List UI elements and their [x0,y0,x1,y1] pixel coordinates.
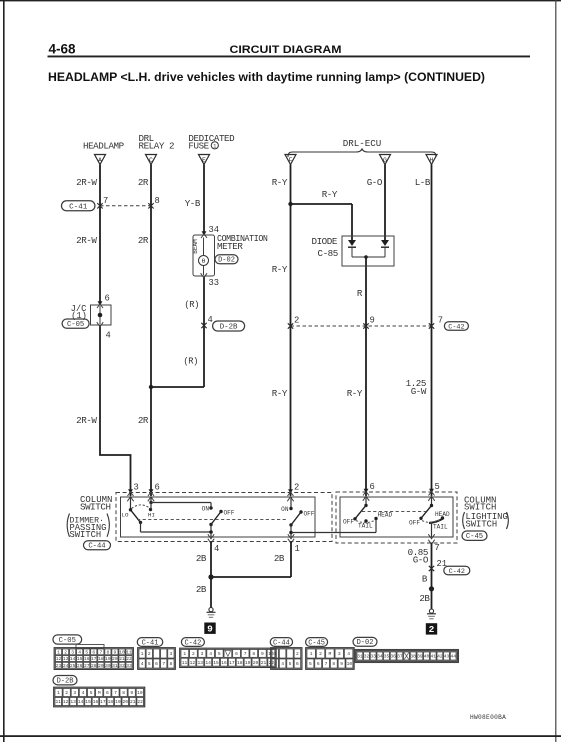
svg-text:SWITCH: SWITCH [466,520,498,530]
svg-text:5: 5 [90,690,93,696]
svg-text:32: 32 [364,654,370,660]
svg-text:28: 28 [91,663,97,669]
svg-text:36: 36 [390,654,396,660]
svg-text:2: 2 [148,651,151,657]
svg-text:7: 7 [114,690,117,696]
svg-text:1: 1 [310,651,313,657]
svg-text:OFF: OFF [409,520,420,527]
svg-text:1: 1 [274,651,277,657]
svg-text:20: 20 [123,699,129,705]
svg-text:14: 14 [70,656,76,662]
svg-text:2: 2 [64,650,67,656]
svg-text:2R: 2R [138,177,149,188]
svg-text:9: 9 [370,316,375,326]
svg-text:SWITCH: SWITCH [80,502,111,513]
svg-text:Y-B: Y-B [185,198,201,209]
svg-text:ON: ON [281,506,289,513]
svg-text:2R-W: 2R-W [76,177,97,188]
svg-text:42: 42 [437,654,443,660]
svg-text:9: 9 [114,650,117,656]
svg-text:10: 10 [347,661,353,667]
svg-text:33: 33 [209,278,220,288]
svg-text:8: 8 [252,651,255,657]
svg-text:OFF: OFF [343,519,354,526]
svg-text:D-2B: D-2B [220,324,238,332]
svg-text:4: 4 [209,651,212,657]
svg-text:3: 3 [338,651,341,657]
svg-text:2R: 2R [138,415,149,426]
svg-text:22: 22 [137,699,143,705]
svg-text:10: 10 [137,690,143,696]
svg-text:8: 8 [106,650,109,656]
svg-text:4-68: 4-68 [49,42,77,57]
svg-text:2: 2 [294,483,299,493]
svg-text:C-44: C-44 [88,543,105,551]
svg-text:4: 4 [82,690,85,696]
svg-text:C-45: C-45 [308,639,325,647]
svg-text:16: 16 [221,660,227,666]
svg-text:7: 7 [244,651,247,657]
svg-text:33: 33 [126,663,132,669]
svg-text:14: 14 [78,699,84,705]
svg-text:11: 11 [182,660,188,666]
svg-text:2: 2 [65,690,68,696]
svg-text:13: 13 [63,656,69,662]
svg-text:H: H [430,157,434,164]
svg-text:3: 3 [73,690,76,696]
svg-text:6: 6 [317,661,320,667]
svg-text:4: 4 [78,650,81,656]
svg-text:2B: 2B [196,584,207,595]
svg-text:2R: 2R [138,235,149,246]
svg-text:5: 5 [85,650,88,656]
svg-text:17: 17 [100,699,106,705]
svg-text:22: 22 [126,656,132,662]
svg-text:19: 19 [115,699,121,705]
svg-text:R-Y: R-Y [347,388,363,399]
svg-text:A: A [98,157,102,164]
svg-text:HW08E00BA: HW08E00BA [470,714,506,721]
svg-text:9: 9 [261,651,264,657]
svg-text:4: 4 [347,651,350,657]
svg-text:ON: ON [202,506,210,513]
svg-text:SWITCH: SWITCH [70,530,102,540]
svg-text:12: 12 [63,699,69,705]
svg-text:E: E [202,157,206,164]
svg-text:13: 13 [70,699,76,705]
svg-text:7: 7 [325,661,328,667]
svg-text:30: 30 [105,663,111,669]
svg-text:3: 3 [274,661,277,667]
svg-text:6: 6 [370,482,375,492]
svg-text:2B: 2B [419,593,430,604]
svg-text:M: M [329,651,332,657]
svg-text:1: 1 [183,651,186,657]
svg-text:C-41: C-41 [142,639,159,647]
svg-text:BEAM: BEAM [192,239,199,254]
svg-text:32: 32 [119,663,125,669]
svg-text:G-O: G-O [413,555,429,566]
svg-text:G-O: G-O [367,177,383,188]
svg-text:7: 7 [103,196,108,206]
svg-text:24: 24 [63,663,69,669]
svg-text:M: M [98,690,101,696]
svg-text:6: 6 [105,294,110,304]
svg-text:15: 15 [213,660,219,666]
svg-text:C-05: C-05 [59,637,76,645]
svg-text:41: 41 [430,654,436,660]
svg-text:12: 12 [56,656,62,662]
svg-text:DRL-ECU: DRL-ECU [343,138,382,149]
svg-text:R-Y: R-Y [322,189,338,200]
svg-text:11: 11 [55,699,61,705]
svg-text:11: 11 [126,650,132,656]
svg-text:10: 10 [119,650,125,656]
svg-text:16: 16 [84,656,90,662]
svg-text:16: 16 [93,699,99,705]
svg-text:6: 6 [296,661,299,667]
svg-text:2R-W: 2R-W [76,235,97,246]
svg-text:38: 38 [410,654,416,660]
svg-text:8: 8 [332,661,335,667]
svg-text:9: 9 [207,624,213,635]
svg-text:21: 21 [261,660,267,666]
svg-text:C-85: C-85 [318,248,338,259]
svg-text:D-02: D-02 [357,639,374,647]
svg-text:37: 37 [397,654,403,660]
svg-text:2: 2 [319,651,322,657]
svg-text:27: 27 [84,663,90,669]
svg-text:5: 5 [289,661,292,667]
svg-text:C-44: C-44 [273,639,290,647]
svg-text:2: 2 [294,316,299,326]
svg-text:6: 6 [155,483,160,493]
svg-text:1: 1 [141,651,144,657]
svg-text:4: 4 [208,315,213,325]
svg-text:18: 18 [98,656,104,662]
svg-text:6: 6 [106,690,109,696]
svg-text:35: 35 [384,654,390,660]
svg-text:4: 4 [281,661,284,667]
svg-text:G-W: G-W [411,386,427,397]
svg-text:1: 1 [57,650,60,656]
svg-text:8: 8 [122,690,125,696]
svg-text:18: 18 [108,699,114,705]
svg-text:2B: 2B [196,553,207,564]
svg-text:29: 29 [98,663,104,669]
svg-text:9: 9 [130,690,133,696]
svg-text:L-B: L-B [415,177,431,188]
svg-text:39: 39 [417,654,423,660]
svg-text:θ: θ [202,258,206,265]
svg-text:7: 7 [162,661,165,667]
svg-text:20: 20 [112,656,118,662]
svg-text:18: 18 [237,660,243,666]
svg-text:13: 13 [197,660,203,666]
svg-text:(R): (R) [184,300,199,310]
svg-text:HEAD: HEAD [435,511,450,518]
svg-text:9: 9 [340,661,343,667]
svg-text:17: 17 [229,660,235,666]
svg-text:6: 6 [155,661,158,667]
svg-text:44: 44 [450,654,456,660]
svg-text:R-Y: R-Y [272,264,288,275]
svg-text:6: 6 [235,651,238,657]
svg-text:21: 21 [119,656,125,662]
svg-text:TAIL: TAIL [433,524,448,531]
svg-text:5: 5 [148,661,151,667]
svg-text:20: 20 [253,660,259,666]
svg-text:C-05: C-05 [67,321,84,329]
svg-text:1: 1 [295,544,300,554]
svg-text:D-02: D-02 [218,257,235,265]
svg-text:HEADLAMP <L.H. drive vehicles: HEADLAMP <L.H. drive vehicles with dayti… [48,72,485,84]
svg-text:1: 1 [57,690,60,696]
svg-text:7: 7 [438,316,443,326]
svg-text:8: 8 [170,661,173,667]
svg-text:(R): (R) [183,357,198,367]
svg-text:19: 19 [245,660,251,666]
svg-text:SWITCH: SWITCH [464,503,496,513]
svg-text:R-Y: R-Y [272,388,288,399]
svg-text:33: 33 [370,654,376,660]
svg-text:21: 21 [130,699,136,705]
svg-text:C-45: C-45 [466,533,483,541]
svg-text:26: 26 [77,663,83,669]
svg-text:OFF: OFF [224,510,235,517]
svg-text:OFF: OFF [304,511,315,518]
svg-text:4: 4 [141,661,144,667]
svg-text:3: 3 [71,650,74,656]
svg-text:C: C [149,157,153,164]
svg-text:D-2B: D-2B [57,678,74,686]
svg-text:2: 2 [192,651,195,657]
svg-text:C-41: C-41 [69,203,88,211]
svg-text:METER: METER [217,241,243,252]
svg-text:LO: LO [122,512,129,519]
svg-text:5: 5 [309,661,312,667]
svg-text:7: 7 [435,543,440,553]
svg-text:C-42: C-42 [448,323,464,331]
svg-text:31: 31 [112,663,118,669]
svg-text:2: 2 [296,651,299,657]
svg-text:31: 31 [357,654,363,660]
svg-text:HI: HI [148,512,155,519]
svg-text:HEADLAMP: HEADLAMP [83,141,125,152]
svg-text:RELAY 2: RELAY 2 [139,141,175,152]
svg-text:2: 2 [429,624,435,635]
svg-text:15: 15 [85,699,91,705]
svg-text:4: 4 [106,331,111,341]
svg-text:7: 7 [99,650,102,656]
svg-text:5: 5 [435,482,440,492]
svg-text:DIODE: DIODE [312,236,338,247]
svg-text:F: F [289,157,293,164]
svg-text:2B: 2B [274,553,285,564]
svg-text:17: 17 [91,656,97,662]
svg-text:6: 6 [92,650,95,656]
svg-text:25: 25 [70,663,76,669]
svg-text:C-42: C-42 [449,568,465,576]
svg-text:2R-W: 2R-W [76,415,97,426]
svg-text:R-Y: R-Y [272,177,288,188]
svg-text:12: 12 [190,660,196,666]
svg-text:TAIL: TAIL [358,523,373,530]
svg-text:C-42: C-42 [184,639,201,647]
svg-text:5: 5 [218,651,221,657]
svg-text:4: 4 [214,544,219,554]
svg-text:40: 40 [424,654,430,660]
svg-text:3: 3 [201,651,204,657]
svg-text:3: 3 [134,483,139,493]
svg-text:CIRCUIT DIAGRAM: CIRCUIT DIAGRAM [230,44,342,56]
svg-text:23: 23 [56,663,62,669]
svg-text:HEAD: HEAD [378,512,393,519]
svg-text:FUSE: FUSE [188,141,209,152]
svg-text:34: 34 [377,654,383,660]
svg-text:15: 15 [77,656,83,662]
svg-text:3: 3 [170,651,173,657]
svg-text:43: 43 [444,654,450,660]
svg-text:14: 14 [205,660,211,666]
svg-text:19: 19 [105,656,111,662]
svg-text:8: 8 [155,196,160,206]
svg-text:G: G [383,157,387,164]
